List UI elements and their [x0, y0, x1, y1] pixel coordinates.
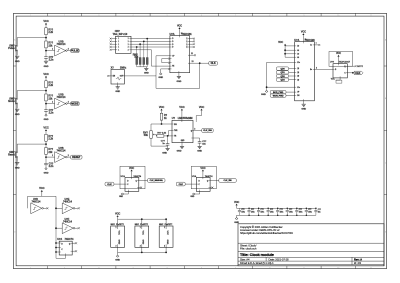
- svg-text:GND: GND: [15, 61, 20, 63]
- node junction: [45, 37, 47, 39]
- title block frame: [238, 224, 384, 266]
- svg-text:6: 6: [201, 267, 202, 269]
- schmitt inverter U1C 74HC14: [52, 94, 69, 109]
- svg-text:Q0: Q0: [297, 72, 299, 74]
- node junction: [45, 90, 47, 92]
- capacitor C11 100n: [247, 208, 254, 217]
- svg-text:BOR_PWD: BOR_PWD: [273, 92, 284, 94]
- svg-text:File: clock.sch: File: clock.sch: [240, 247, 257, 251]
- svg-text:U?A: U?A: [121, 175, 126, 178]
- node junction: [284, 53, 286, 55]
- wire: [67, 156, 70, 158]
- VCC power symbol (spare gates): [39, 186, 44, 196]
- pushbutton SW1: [8, 44, 18, 51]
- net label QD0: [276, 67, 288, 70]
- svg-text:CLK_556: CLK_556: [203, 130, 212, 132]
- title block text: [240, 225, 362, 265]
- svg-text:Mode: Mode: [8, 100, 15, 103]
- svg-text:CLK: CLK: [107, 184, 112, 186]
- wire: [45, 111, 47, 114]
- svg-text:2: 2: [116, 246, 117, 248]
- svg-text:Pulse: Pulse: [8, 47, 15, 50]
- wire: [16, 38, 18, 45]
- svg-text:htfps.//github.com/adrienkohlb: htfps.//github.com/adrienkohlbecker/KOCH…: [240, 231, 293, 235]
- svg-text:Q0: Q0: [297, 79, 299, 81]
- node junction: [284, 49, 286, 51]
- svg-text:100n: 100n: [280, 212, 284, 214]
- svg-text:100n: 100n: [261, 212, 265, 214]
- wire: [210, 187, 212, 189]
- ground flag (U4): [261, 87, 268, 96]
- connector J1 power header: [111, 219, 125, 252]
- svg-text:PinFET?: PinFET?: [165, 224, 174, 226]
- wire: [151, 65, 170, 67]
- buffer U6 74LVC1G17: [330, 60, 351, 78]
- no-connect: [110, 38, 112, 40]
- no-connect: [355, 65, 357, 67]
- schmitt inverter U1F 74HC14 (spare): [62, 218, 75, 234]
- svg-text:Co: Co: [310, 45, 312, 47]
- wire: [43, 207, 46, 209]
- svg-text:DN: DN: [297, 95, 299, 97]
- svg-text:4: 4: [133, 15, 134, 17]
- svg-text:2: 2: [164, 246, 165, 248]
- svg-text:U??: U??: [330, 61, 335, 63]
- svg-text:74HC14: 74HC14: [63, 200, 72, 203]
- no-connect: [212, 187, 214, 189]
- svg-text:PULSE: PULSE: [71, 49, 79, 52]
- node junction: [165, 218, 167, 220]
- ground flag (decoupling): [234, 218, 239, 224]
- resistor R6 22k: [45, 148, 54, 155]
- svg-text:NC??: NC??: [357, 66, 363, 68]
- svg-text:PE: PE: [172, 66, 174, 68]
- svg-text:VCC: VCC: [234, 200, 239, 204]
- wire: [314, 44, 318, 46]
- wire load feedback: [156, 55, 170, 57]
- no-connect: [140, 187, 142, 189]
- svg-text:2: 2: [68, 48, 69, 50]
- svg-text:TAG_ISP x10: TAG_ISP x10: [113, 33, 128, 36]
- svg-text:PinFET?: PinFET?: [116, 224, 125, 226]
- svg-text:GND: GND: [162, 152, 167, 154]
- wire: [210, 179, 219, 181]
- VCC power symbol (U5 VDD): [179, 105, 184, 121]
- wire: [56, 257, 66, 259]
- wire: [151, 145, 168, 147]
- svg-text:10: 10: [337, 15, 339, 17]
- svg-text:1: 1: [52, 155, 53, 157]
- capacitor C2 2.2n: [44, 109, 54, 114]
- VCC power symbol (button block 3): [43, 126, 48, 135]
- svg-text:1: 1: [30, 267, 31, 269]
- wire: [45, 48, 47, 57]
- svg-text:8: 8: [269, 15, 270, 17]
- svg-text:11: 11: [370, 267, 372, 269]
- no-connect: [193, 43, 195, 45]
- net label QD2: [276, 74, 288, 77]
- svg-text:Title: Clock module: Title: Clock module: [240, 253, 274, 257]
- svg-text:PinFET?: PinFET?: [140, 224, 149, 226]
- capacitor C18 100n: [314, 208, 321, 216]
- node junction: [352, 72, 354, 74]
- wire: [164, 135, 172, 137]
- capacitor C3 2.2n: [44, 163, 54, 168]
- svg-text:Q0: Q0: [297, 76, 299, 78]
- svg-text:1: 1: [164, 227, 165, 229]
- svg-text:8: 8: [269, 267, 270, 269]
- svg-text:22k: 22k: [48, 97, 53, 100]
- svg-text:1: 1: [52, 102, 53, 104]
- ground (osc): [115, 87, 120, 93]
- svg-text:GND: GND: [234, 222, 239, 224]
- ground (button): [15, 163, 20, 170]
- border column ticks and numbers: [30, 13, 372, 269]
- svg-text:100n: 100n: [299, 212, 303, 214]
- pushbutton SW2: [8, 97, 17, 104]
- graphic box (clock divider 1): [120, 166, 145, 189]
- wire: [190, 46, 194, 48]
- capacitor C4 1n: [161, 136, 170, 145]
- wire: [45, 101, 47, 110]
- svg-text:3: 3: [98, 15, 99, 17]
- svg-text:VCC: VCC: [278, 41, 283, 44]
- capacitor C10 100n: [238, 208, 245, 215]
- net label CLK_MANUAL (output): [148, 179, 166, 183]
- wire: [286, 91, 295, 93]
- no-connect: [78, 227, 80, 229]
- no-connect: [78, 207, 80, 209]
- node junction: [45, 103, 47, 105]
- svg-text:2.2n: 2.2n: [49, 112, 54, 115]
- net label WOR_PWD: [270, 94, 286, 97]
- wire: [185, 183, 196, 185]
- ground (C4): [162, 148, 169, 154]
- node junction: [136, 46, 138, 48]
- svg-text:MODE: MODE: [71, 102, 79, 105]
- wire: [75, 227, 78, 229]
- wire: [151, 123, 172, 125]
- wire decoupling VCC rail: [237, 207, 316, 209]
- node junction: [141, 252, 143, 254]
- svg-text:GND: GND: [118, 240, 120, 245]
- svg-text:1: 1: [30, 15, 31, 17]
- VCC power symbol (U2): [177, 25, 183, 36]
- net label CLK (input): [105, 182, 114, 186]
- svg-text:WOR_PWD: WOR_PWD: [273, 95, 284, 97]
- wire: [190, 38, 194, 40]
- svg-text:7: 7: [235, 15, 236, 17]
- svg-text:CLK: CLK: [211, 62, 216, 65]
- svg-text:GND: GND: [115, 259, 120, 261]
- potentiometer RV1 50k: [143, 124, 156, 146]
- wire U5 out: [193, 130, 202, 132]
- wire: [193, 137, 200, 139]
- svg-text:5: 5: [167, 15, 168, 17]
- wire: [339, 78, 341, 80]
- wire: [181, 143, 183, 147]
- svg-text:74HC14: 74HC14: [32, 200, 41, 203]
- svg-text:10u: 10u: [318, 212, 321, 214]
- resistor R1 2.2k: [45, 28, 54, 35]
- inverted pin (U2 CET): [162, 59, 170, 64]
- svg-text:VCC: VCC: [129, 167, 134, 170]
- svg-text:11: 11: [370, 15, 372, 17]
- svg-text:VCC: VCC: [118, 231, 120, 236]
- net label CLK_556 (U5 out): [202, 129, 214, 133]
- node junction: [55, 242, 57, 244]
- net label PULSE: [71, 49, 80, 53]
- wire: [156, 87, 200, 89]
- svg-text:1MHz: 1MHz: [120, 66, 127, 69]
- no-connect: [110, 43, 112, 45]
- node junction: [266, 86, 268, 88]
- flip-flop U3B 74HC74: [192, 175, 213, 191]
- wire: [190, 40, 194, 42]
- wire: [45, 154, 47, 163]
- svg-text:5: 5: [167, 267, 168, 269]
- svg-text:100n: 100n: [270, 212, 274, 214]
- svg-text:GND: GND: [44, 172, 49, 174]
- wire: [46, 103, 55, 105]
- wire: [131, 43, 170, 45]
- wire: [289, 75, 295, 77]
- net label RESET: [71, 155, 82, 159]
- net label CLK pill (U2 out): [209, 61, 218, 65]
- svg-text:Reset: Reset: [8, 153, 15, 156]
- wire: [285, 56, 295, 58]
- svg-text:GND: GND: [144, 72, 149, 74]
- node junction: [139, 43, 141, 45]
- svg-text:U?A: U?A: [57, 238, 62, 241]
- capacitor C16 100n: [295, 208, 302, 217]
- svg-text:Rev: A: Rev: A: [354, 258, 362, 262]
- counter U2 74HC161: [170, 33, 193, 72]
- wire: [199, 63, 201, 88]
- svg-text:3: 3: [194, 128, 195, 130]
- wire: [16, 91, 18, 98]
- wire: [45, 58, 47, 61]
- schmitt inverter U1E 74HC14 (spare): [62, 198, 75, 214]
- wire: [347, 72, 353, 74]
- VCC flag (buffer bottom): [331, 79, 342, 84]
- svg-text:VCC: VCC: [43, 19, 48, 23]
- wire: [190, 54, 195, 56]
- svg-text:GND: GND: [166, 240, 168, 245]
- svg-text:VCC: VCC: [166, 231, 168, 236]
- wire: [117, 84, 119, 87]
- svg-text:74LVC1G17: 74LVC1G17: [339, 60, 351, 63]
- svg-text:7: 7: [316, 43, 317, 45]
- wire: [28, 195, 56, 197]
- capacitor C1 2.2n: [44, 56, 54, 61]
- svg-text:74HC14: 74HC14: [57, 43, 66, 46]
- svg-text:11: 11: [191, 53, 193, 55]
- wire: [109, 75, 111, 77]
- svg-text:GND: GND: [158, 77, 163, 79]
- node junction: [161, 123, 163, 125]
- wire U4 carry out: [314, 68, 333, 70]
- VCC power symbol (connectors): [115, 211, 120, 219]
- wire: [114, 183, 125, 185]
- wire: [118, 218, 167, 220]
- ground (button): [15, 109, 20, 116]
- wire: [46, 156, 55, 158]
- wire: [289, 79, 295, 81]
- no-connect: [75, 242, 77, 244]
- wire: [16, 104, 18, 108]
- wire: [72, 250, 75, 252]
- svg-text:Size: A4: Size: A4: [240, 258, 250, 262]
- VCC power symbol (ff 1): [129, 167, 134, 178]
- wire: [117, 252, 119, 255]
- svg-text:4: 4: [133, 267, 134, 269]
- wire: [236, 215, 238, 217]
- svg-text:CP: CP: [172, 55, 174, 57]
- svg-text:2: 2: [68, 101, 69, 103]
- wire: [289, 71, 295, 73]
- wire: [56, 242, 59, 244]
- svg-text:GND: GND: [261, 94, 266, 96]
- graphic box (clock divider 2): [191, 166, 216, 189]
- wire: [167, 145, 169, 148]
- wire: [139, 179, 148, 181]
- ground flag (cap): [44, 114, 49, 121]
- wire: [111, 43, 115, 45]
- wire: [65, 255, 67, 258]
- no-connect: [194, 54, 196, 56]
- svg-text:Id: 2/2: Id: 2/2: [354, 261, 362, 265]
- resistor R7 1k: [160, 113, 167, 120]
- global label CLK: [354, 71, 363, 75]
- svg-text:GND: GND: [44, 66, 49, 68]
- svg-text:2: 2: [64, 267, 65, 269]
- ground (button): [15, 56, 20, 63]
- net label QD3: [276, 78, 288, 81]
- schmitt inverter U1A 74HC14 (spare): [31, 198, 44, 214]
- svg-text:SCo: SCo: [297, 62, 300, 64]
- resistor network RN1 10k: [133, 39, 148, 67]
- wire: [111, 38, 115, 40]
- svg-text:U?A: U?A: [192, 175, 197, 178]
- svg-text:Date: 2021-07-28: Date: 2021-07-28: [269, 258, 290, 262]
- wire: [27, 196, 29, 208]
- wire: [190, 43, 194, 45]
- wire: [168, 131, 170, 136]
- svg-text:100n: 100n: [251, 212, 255, 214]
- pushbutton SW3: [8, 151, 18, 158]
- svg-text:13: 13: [192, 61, 194, 63]
- wire: [16, 51, 18, 55]
- no-connect: [193, 38, 195, 40]
- svg-text:9: 9: [304, 15, 305, 17]
- wire: [46, 50, 55, 52]
- no-connect: [110, 46, 112, 48]
- svg-text:VCC: VCC: [200, 167, 205, 170]
- ground (U2): [177, 76, 182, 83]
- net label MODE: [71, 102, 80, 106]
- connector J2 power header: [135, 219, 149, 252]
- VCC power symbol (button block 1): [43, 19, 48, 28]
- svg-text:2: 2: [64, 15, 65, 17]
- inverted pin (U2 MR) to ground flag: [158, 68, 169, 79]
- wire THR: [169, 130, 172, 132]
- graphic box (clock buffer subcircuit): [329, 52, 353, 67]
- svg-text:U?: U?: [172, 117, 176, 120]
- wire: [286, 95, 295, 97]
- net label QD1: [276, 71, 288, 74]
- svg-text:3: 3: [316, 67, 317, 69]
- connector J3 power header: [159, 219, 173, 252]
- ground (RN): [144, 68, 149, 74]
- VCC power symbol (button block 2): [43, 72, 48, 81]
- node junction: [143, 41, 145, 43]
- svg-text:9: 9: [304, 267, 305, 269]
- wire: [139, 187, 141, 189]
- ground flag (ff): [119, 193, 124, 198]
- node junction: [55, 251, 57, 253]
- wire osc out: [124, 75, 156, 77]
- svg-text:74HC14: 74HC14: [57, 96, 66, 99]
- svg-text:100n: 100n: [289, 212, 293, 214]
- svg-text:10: 10: [337, 267, 339, 269]
- node junction: [45, 156, 47, 158]
- svg-text:KiCad E.D.A. kicad (5.1.10)-1: KiCad E.D.A. kicad (5.1.10)-1: [240, 261, 274, 265]
- svg-text:2.2k: 2.2k: [48, 84, 53, 87]
- svg-text:VCC: VCC: [177, 25, 182, 28]
- capacitor C5 10n: [198, 141, 207, 145]
- node junction: [146, 38, 148, 40]
- VCC power symbol (U5 reset): [196, 105, 204, 121]
- svg-text:16: 16: [305, 39, 307, 41]
- resistor R8 2.2k: [157, 133, 167, 138]
- wire: [199, 143, 201, 146]
- wire: [285, 45, 295, 47]
- svg-text:22k: 22k: [48, 151, 53, 154]
- svg-text:GND: GND: [15, 167, 20, 169]
- svg-text:CLK_MANUAL: CLK_MANUAL: [150, 179, 164, 182]
- svg-text:GND: GND: [115, 91, 120, 93]
- svg-text:VCC: VCC: [199, 105, 204, 109]
- svg-text:2: 2: [68, 155, 69, 157]
- ground (U4): [301, 104, 306, 110]
- svg-text:74HC14: 74HC14: [63, 220, 72, 223]
- svg-text:R?? 2.2k: R?? 2.2k: [157, 133, 166, 135]
- VCC flag (U4 data inputs): [278, 41, 286, 57]
- svg-text:VCC: VCC: [159, 105, 164, 109]
- net label CLK (input): [176, 182, 185, 186]
- svg-text:X?: X?: [111, 66, 115, 69]
- svg-text:1: 1: [140, 227, 141, 229]
- VCC power symbol (ff 2): [200, 167, 205, 178]
- net label CLK_556 (output): [219, 179, 237, 183]
- wire: [56, 247, 59, 249]
- wire: [17, 90, 46, 92]
- wire: [56, 207, 62, 209]
- svg-text:100n: 100n: [308, 212, 312, 214]
- svg-text:6: 6: [201, 15, 202, 17]
- resistor R2 22k: [45, 41, 54, 48]
- ground (C5): [197, 146, 202, 152]
- border row ticks and letters: [13, 39, 386, 234]
- svg-text:2.2n: 2.2n: [49, 165, 54, 168]
- timer U5 LMC555: [172, 117, 196, 142]
- svg-text:UP: UP: [297, 92, 299, 94]
- wire QD out: [190, 62, 209, 64]
- schmitt inverter U1B 74HC14: [52, 41, 69, 56]
- connector CN5 TAG_ISP x10: [113, 30, 132, 53]
- svg-text:2.2k: 2.2k: [48, 138, 53, 141]
